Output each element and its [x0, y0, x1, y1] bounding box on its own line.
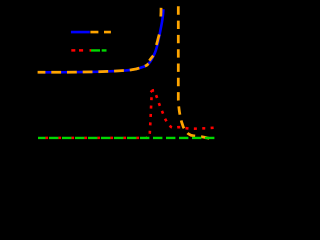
orange dashed curve (left branch rise piece B): [156, 35, 159, 46]
legend sample: blue solid line: [71, 31, 90, 34]
orange dashed curve (left branch flat part, overlaps blue): [38, 64, 149, 73]
orange dashed curve (left branch rise piece A): [149, 56, 153, 61]
blue solid curve: [39, 9, 163, 72]
legend sample: red dotted line: [71, 49, 91, 52]
legend sample: orange dashed line: [90, 31, 111, 34]
green dash-dot horizontal line: [38, 137, 218, 139]
red dotted curve (spike and tail): [146, 90, 216, 138]
red dotted curve extra apex dot: [151, 91, 152, 92]
orange dashed curve (right branch: vertical asymptote then tail): [178, 6, 213, 139]
red dotted curve baseline portion (dots show in green line gaps): [38, 137, 146, 140]
legend sample: green dash-dot line: [91, 49, 107, 51]
orange dashed curve (left branch rise piece C, top column): [159, 8, 162, 17]
